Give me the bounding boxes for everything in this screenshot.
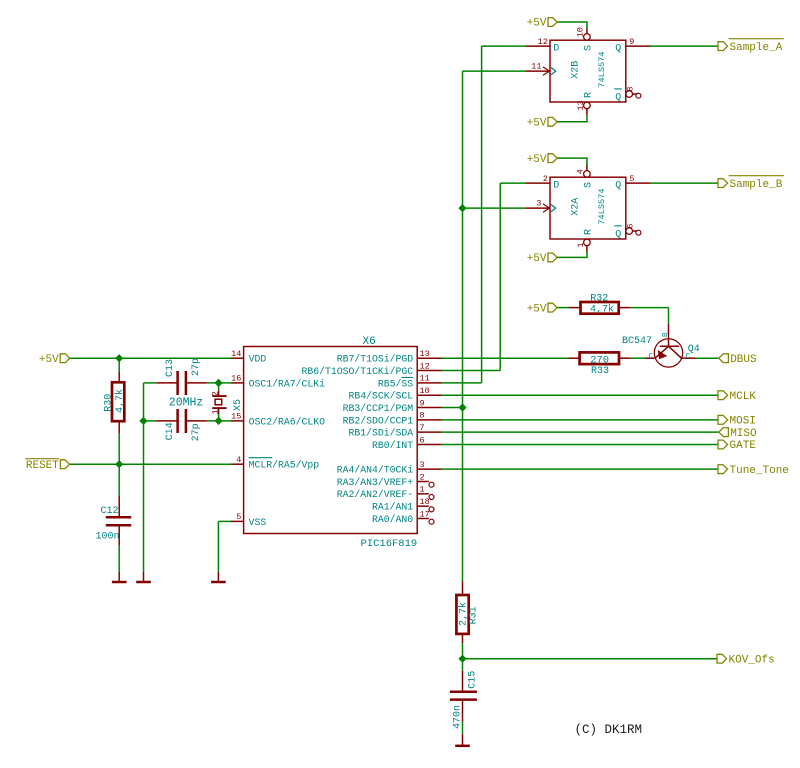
hierarchical label MOSI — [718, 415, 728, 424]
svg-text:6: 6 — [420, 435, 425, 445]
svg-text:74LS574: 74LS574 — [597, 188, 607, 224]
hierarchical label DBUS — [719, 354, 729, 363]
hierarchical label MCLK — [718, 391, 728, 400]
wire RESET label to MCLR pin 4 — [69, 463, 231, 465]
svg-text:8: 8 — [626, 86, 636, 91]
X2A pin 3 clock input — [526, 207, 550, 209]
X2A pin 4 set input with bubble — [586, 164, 588, 170]
wire pin 3 to Tune_Tone — [442, 468, 719, 470]
ground symbol below C15 — [462, 734, 464, 745]
wire +5V to X2B R pin — [557, 121, 587, 123]
X2B pin 8 Q-bar output with bubble, unconnected — [626, 91, 633, 98]
wire pin 6 to GATE — [442, 444, 719, 446]
wire clock net to X2A clock — [463, 207, 526, 209]
power +5V label to X2A reset pin — [548, 253, 557, 262]
capacitor C12 100n — [118, 496, 120, 517]
svg-text:VDD: VDD — [249, 354, 267, 365]
svg-text:Q: Q — [615, 43, 621, 54]
svg-text:6: 6 — [626, 223, 636, 228]
wire junction down to C12 — [118, 464, 120, 496]
ground symbol below rail — [143, 572, 145, 581]
svg-text:Q: Q — [615, 92, 621, 103]
svg-text:4,7k: 4,7k — [590, 304, 614, 316]
wire cap rail vertical — [143, 383, 145, 572]
svg-text:Q: Q — [615, 180, 621, 191]
svg-text:C12: C12 — [101, 506, 119, 517]
wire pin 10 to MCLK — [442, 394, 719, 396]
svg-text:15: 15 — [231, 412, 241, 422]
X6 pin 17 RA0/AN0 — [417, 517, 429, 519]
svg-text:5: 5 — [629, 174, 634, 184]
wire junction to KOV_Ofs label — [463, 658, 718, 660]
svg-text:C15: C15 — [468, 671, 479, 689]
wire pin 11 right — [442, 382, 482, 384]
svg-text:KOV_Ofs: KOV_Ofs — [729, 654, 775, 666]
svg-text:BC547: BC547 — [622, 336, 652, 347]
svg-text:5: 5 — [236, 512, 241, 522]
svg-text:10: 10 — [420, 386, 430, 396]
IC X2B 74LS574 flip-flop body — [550, 40, 626, 102]
svg-text:14: 14 — [231, 349, 241, 359]
svg-text:Sample_B: Sample_B — [730, 179, 783, 191]
capacitor C13 27p — [156, 382, 177, 384]
capacitor C15 470n — [462, 671, 464, 692]
X6 pin 16 OSC1/RA7/CLKi — [231, 382, 244, 384]
wire pin 11 up to X2B D — [481, 46, 483, 383]
resistor R33 270 — [569, 357, 580, 359]
wire +5V to X2A S pin — [557, 157, 587, 159]
IC X2A 74LS574 flip-flop body — [550, 177, 626, 239]
svg-text:GATE: GATE — [730, 440, 757, 452]
X2B pin 13 reset input with bubble — [586, 109, 588, 115]
X6 pin 2 RA3/AN3/VREF+ — [417, 481, 429, 483]
svg-text:R32: R32 — [590, 293, 608, 304]
hierarchical label RESET — [60, 460, 69, 469]
power +5V label to X2B reset pin — [548, 117, 557, 126]
svg-text:RB6/T1OSO/T1CKi/PGC: RB6/T1OSO/T1CKi/PGC — [301, 366, 413, 377]
X2A pin 1 reset input with bubble — [586, 246, 588, 252]
X6 pin 15 OSC2/RA6/CLKO — [231, 420, 244, 422]
wire R32 to Q4 collector horizontal — [631, 307, 669, 309]
svg-text:2,7k: 2,7k — [457, 602, 469, 626]
wire pin 12 right — [442, 370, 500, 372]
X6 pin 11 RB5/SS — [417, 382, 442, 384]
svg-text:X2A: X2A — [570, 198, 581, 216]
wire pin 9 to clock net — [442, 407, 463, 409]
svg-text:8: 8 — [420, 411, 425, 421]
svg-text:R30: R30 — [104, 394, 115, 412]
wire junction down to C15 — [462, 659, 464, 671]
svg-text:X6: X6 — [363, 336, 376, 348]
svg-text:1: 1 — [576, 242, 586, 247]
hierarchical label GATE — [718, 440, 728, 449]
svg-text:27p: 27p — [191, 358, 202, 376]
svg-text:MCLK: MCLK — [730, 391, 757, 403]
X6 pin 1 RA2/AN2/VREF- — [417, 493, 429, 495]
Sample_B inversion overline — [729, 175, 784, 177]
wire VSS vertical — [217, 521, 219, 571]
hierarchical label Sample_B — [718, 179, 728, 188]
hierarchical label Sample_A — [718, 42, 728, 51]
svg-text:2: 2 — [210, 391, 220, 396]
svg-text:PIC16F819: PIC16F819 — [361, 538, 418, 550]
svg-text:Tune_Tone: Tune_Tone — [730, 465, 789, 477]
svg-text:RA3/AN3/VREF+: RA3/AN3/VREF+ — [337, 477, 414, 488]
svg-text:9: 9 — [420, 398, 425, 408]
svg-text:OSC1/RA7/CLKi: OSC1/RA7/CLKi — [249, 378, 326, 389]
svg-text:270: 270 — [590, 354, 609, 366]
wire C14 to OSC2 pin 15 — [207, 420, 231, 422]
wire clock net to X2B clock — [463, 70, 526, 72]
svg-text:18: 18 — [420, 497, 430, 507]
Sample_A inversion overline — [729, 38, 784, 40]
wire RB7 pin 13 to R33 — [442, 357, 569, 359]
X6 pin 4 MCLR/RA5/Vpp — [231, 463, 244, 465]
svg-text:11: 11 — [531, 61, 541, 71]
svg-text:2: 2 — [543, 174, 548, 184]
svg-text:DBUS: DBUS — [730, 354, 757, 366]
X2A pin 2 D input — [526, 182, 550, 184]
wire R33 to Q4 base — [631, 357, 645, 359]
svg-text:RB3/CCP1/PGM: RB3/CCP1/PGM — [343, 403, 414, 414]
crystal bottom wire stub — [218, 414, 220, 421]
junction clock net pin 9 — [459, 404, 466, 411]
wire pin 12 up to X2A D — [499, 183, 501, 370]
wire up to X2A R pin — [586, 252, 588, 258]
X6 RB5/SS overline — [401, 376, 413, 378]
RESET inversion overline — [25, 458, 59, 460]
svg-text:R31: R31 — [469, 606, 480, 624]
X2B pin 9 Q output — [626, 45, 651, 47]
svg-text:RA2/AN2/VREF-: RA2/AN2/VREF- — [337, 489, 413, 500]
wire junction down to R30 — [118, 358, 120, 372]
X6 pin 12 RB6/T1OSO/T1CKi/PGC — [417, 370, 442, 372]
wire X2A Q to Sample_B — [650, 182, 718, 184]
hierarchical label KOV_Ofs — [717, 654, 727, 663]
svg-text:MCLR/RA5/Vpp: MCLR/RA5/Vpp — [249, 460, 320, 471]
svg-text:RA1/AN1: RA1/AN1 — [372, 502, 413, 513]
svg-text:MOSI: MOSI — [730, 416, 756, 428]
svg-text:17: 17 — [420, 509, 430, 519]
X6 pin 10 RB4/SCK/SCL — [417, 394, 442, 396]
svg-text:C14: C14 — [165, 422, 176, 440]
svg-text:13: 13 — [576, 100, 586, 110]
svg-text:2: 2 — [420, 472, 425, 482]
wire R30 to RESET row — [118, 433, 120, 464]
svg-text:R: R — [583, 92, 594, 98]
svg-text:RB4/SCK/SCL: RB4/SCK/SCL — [349, 391, 414, 402]
X2B pin 12 D input — [526, 45, 550, 47]
svg-text:D: D — [553, 43, 559, 54]
wire clock net vertical — [462, 71, 464, 581]
wire +5V rail to VDD pin 14 — [69, 357, 231, 359]
svg-text:4: 4 — [576, 169, 586, 174]
svg-text:RA4/AN4/T0CKi: RA4/AN4/T0CKi — [337, 465, 414, 476]
X6 pin 18 RA1/AN1 — [417, 505, 429, 507]
svg-text:RB7/T1OSi/PGD: RB7/T1OSi/PGD — [337, 354, 414, 365]
X2A pin 6 Q-bar output with bubble, unconnected — [626, 228, 633, 235]
svg-text:+5V: +5V — [527, 118, 547, 130]
svg-text:RA0/AN0: RA0/AN0 — [372, 514, 413, 525]
svg-text:R: R — [583, 229, 594, 235]
svg-text:4: 4 — [236, 455, 241, 465]
X6 pin 8 RB2/SDO/CCP1 — [417, 419, 442, 421]
wire to X2B D pin — [482, 45, 526, 47]
hierarchical label MISO — [719, 428, 729, 437]
crystal top wire stub — [218, 383, 220, 390]
svg-text:S: S — [583, 45, 594, 51]
svg-text:13: 13 — [420, 349, 430, 359]
junction clock net X2A — [459, 205, 466, 212]
resistor R30 4.7k vertical — [118, 372, 120, 382]
wire VSS pin 5 to ground — [218, 520, 231, 522]
svg-text:1: 1 — [210, 409, 220, 414]
X6 pin 14 VDD — [231, 357, 244, 359]
svg-text:RB0/INT: RB0/INT — [372, 440, 413, 451]
wire C12 to ground — [118, 546, 120, 572]
svg-text:20MHz: 20MHz — [169, 397, 204, 410]
wire cap rail top corner — [144, 382, 157, 384]
X2A pin 5 Q output — [626, 182, 651, 184]
junction RESET / C12 — [116, 461, 123, 468]
svg-text:RB2/SDO/CCP1: RB2/SDO/CCP1 — [343, 415, 414, 426]
svg-text:RB1/SDi/SDA: RB1/SDi/SDA — [349, 428, 414, 439]
svg-text:X2B: X2B — [570, 61, 581, 79]
svg-text:+5V: +5V — [527, 253, 547, 265]
svg-text:12: 12 — [538, 37, 548, 47]
svg-text:R33: R33 — [591, 366, 609, 377]
svg-text:VSS: VSS — [249, 517, 267, 528]
wire rail to C14 — [144, 420, 157, 422]
hierarchical label Tune_Tone — [718, 465, 728, 474]
X6 pin 13 RB7/T1OSi/PGD — [417, 357, 442, 359]
X2B pin 11 clock input — [526, 70, 550, 72]
power +5V label to R32 — [548, 303, 557, 312]
svg-text:100n: 100n — [96, 532, 120, 543]
svg-text:4,7k: 4,7k — [114, 389, 126, 413]
transistor Q4 BC547 — [668, 324, 670, 347]
svg-text:+5V: +5V — [527, 18, 547, 30]
svg-text:1: 1 — [420, 485, 425, 495]
svg-text:3: 3 — [536, 198, 541, 208]
svg-text:+5V: +5V — [39, 354, 59, 366]
power +5V hierarchical label left — [60, 354, 70, 363]
wire to X2A D pin — [500, 182, 525, 184]
svg-text:7: 7 — [420, 423, 425, 433]
wire +5V to X2A R pin — [557, 256, 587, 258]
resistor R31 2,7k vertical — [462, 581, 464, 595]
X6 pin 6 RB0/INT — [417, 444, 442, 446]
wire C13 to OSC1 pin 16 — [207, 382, 231, 384]
wire pin 8 to MOSI — [442, 419, 719, 421]
junction crystal bottom — [215, 418, 222, 425]
svg-text:Q: Q — [615, 229, 621, 240]
svg-text:3: 3 — [420, 460, 425, 470]
svg-text:MISO: MISO — [730, 428, 757, 440]
svg-text:Sample_A: Sample_A — [730, 42, 783, 54]
svg-text:S: S — [583, 182, 594, 188]
svg-text:RESET: RESET — [26, 460, 59, 472]
wire X2B Q to Sample_A — [650, 45, 718, 47]
svg-text:OSC2/RA6/CLKO: OSC2/RA6/CLKO — [249, 416, 326, 427]
ground symbol below C12 — [118, 572, 120, 581]
wire C15 to ground — [462, 722, 464, 735]
X6 MCLR overline — [249, 457, 273, 459]
svg-text:Q4: Q4 — [688, 344, 700, 355]
svg-text:B: B — [662, 332, 670, 337]
X2B pin 10 set input with bubble — [586, 27, 588, 33]
junction crystal top — [215, 380, 222, 387]
svg-text:C13: C13 — [165, 359, 176, 377]
svg-text:470n: 470n — [452, 705, 463, 729]
svg-text:74LS574: 74LS574 — [597, 51, 607, 87]
wire +5V to R32 — [557, 307, 569, 309]
X6 pin 3 RA4/AN4/T0CKi — [417, 468, 442, 470]
wire down to X2A S pin — [586, 157, 588, 166]
X6 pin 5 VSS — [231, 520, 244, 522]
svg-text:9: 9 — [629, 37, 634, 47]
svg-text:X5: X5 — [233, 399, 244, 411]
junction +5V / R30 — [116, 355, 123, 362]
X6 pin 7 RB1/SDi/SDA — [417, 431, 442, 433]
svg-text:27p: 27p — [191, 423, 202, 441]
svg-text:(C) DK1RM: (C) DK1RM — [575, 723, 643, 737]
capacitor C14 27p — [156, 420, 177, 422]
IC X6 PIC16F819 microcontroller body — [244, 347, 418, 534]
svg-text:11: 11 — [420, 374, 430, 384]
X6 pin 9 RB3/CCP1/PGM — [417, 407, 442, 409]
junction rail / C14 — [140, 418, 147, 425]
junction KOV_Ofs — [459, 655, 466, 662]
wire R32 to Q4 collector vertical — [668, 308, 670, 324]
wire Q4 emitter to DBUS — [695, 357, 719, 359]
svg-text:10: 10 — [576, 27, 586, 37]
wire +5V to X2B S pin — [557, 21, 587, 23]
svg-text:RB5/SS: RB5/SS — [378, 378, 413, 389]
svg-text:+5V: +5V — [527, 154, 547, 166]
svg-text:C: C — [648, 353, 653, 361]
svg-text:+5V: +5V — [527, 303, 547, 315]
power +5V label to X2A set pin — [548, 154, 557, 163]
wire down to X2B S pin — [586, 21, 588, 29]
svg-text:12: 12 — [420, 361, 430, 371]
wire pin 7 to MISO — [442, 431, 719, 433]
wire up to X2B R pin — [586, 115, 588, 123]
svg-text:D: D — [553, 180, 559, 191]
wire R31 to KOV junction — [462, 643, 464, 659]
svg-text:16: 16 — [231, 374, 241, 384]
power +5V label to X2B set pin — [548, 18, 557, 27]
ground symbol below VSS — [217, 572, 219, 581]
